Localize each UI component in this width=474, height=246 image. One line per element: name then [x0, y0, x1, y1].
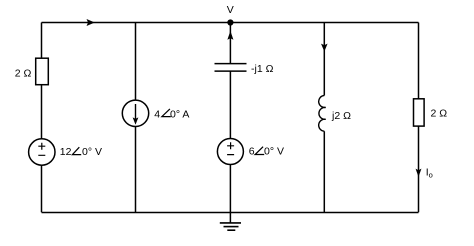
svg-text:2 Ω: 2 Ω [15, 68, 32, 80]
svg-text:-j1 Ω: -j1 Ω [251, 63, 274, 75]
svg-text:0° A: 0° A [170, 108, 189, 120]
svg-text:6: 6 [249, 145, 255, 157]
svg-text:o: o [429, 170, 433, 179]
svg-text:12: 12 [60, 146, 72, 158]
svg-text:0° V: 0° V [82, 146, 102, 158]
svg-text:4: 4 [154, 108, 160, 120]
svg-text:0° V: 0° V [264, 145, 284, 157]
svg-text:V: V [227, 4, 234, 16]
svg-text:2 Ω: 2 Ω [431, 108, 448, 120]
svg-text:j2 Ω: j2 Ω [331, 110, 351, 122]
